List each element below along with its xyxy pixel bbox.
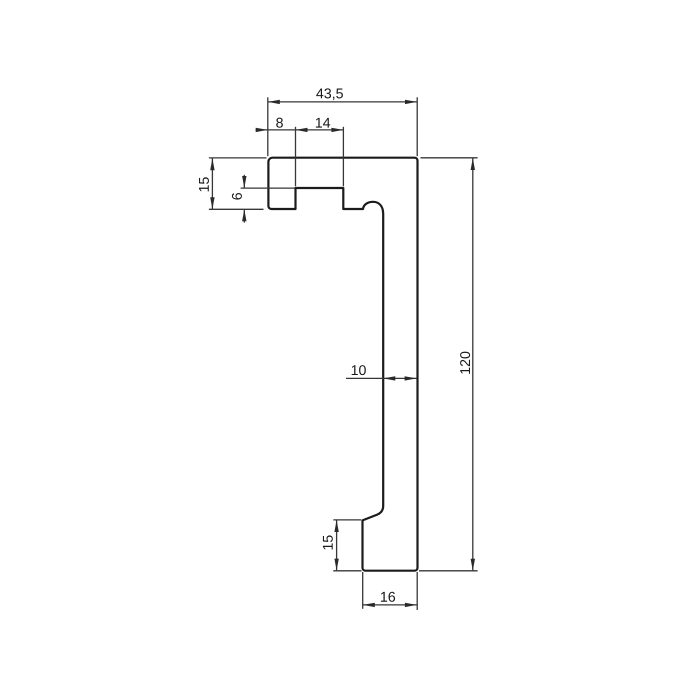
arrow 15 up <box>210 158 214 170</box>
arrow 15b up <box>334 520 338 532</box>
dimension line 15 top-left <box>211 158 213 209</box>
arrow 120 down <box>471 559 475 571</box>
label 15 <box>199 177 209 191</box>
extension line at x=343.4 for 14 <box>342 127 344 187</box>
arrow 43,5 right <box>405 100 417 104</box>
extension line at x=295.5 for 8/14 <box>295 127 297 187</box>
extension line 16 left (x=362.7) <box>362 572 364 609</box>
extension line top for bottom 15 (y=519.9) <box>333 519 361 521</box>
dimension line 10 with tail <box>346 377 417 379</box>
label 10 <box>352 365 366 375</box>
extension line top for 120 (y=157.8) <box>421 157 478 159</box>
label 120 <box>460 352 470 374</box>
extension line bottom-left of profile for 15 (y=570.8) <box>333 570 361 572</box>
extension line for 6 top (y=188.1) <box>241 187 295 189</box>
extension line 16 right (x=417.2) <box>416 572 418 610</box>
arrow 10 left <box>383 376 395 380</box>
label 14 <box>316 118 330 128</box>
arrow 16 right <box>405 603 417 607</box>
label 43,5 <box>316 88 343 100</box>
dimension 6: top arrow with tail <box>243 175 245 188</box>
dimension 6: bottom arrow with tail <box>243 209 245 222</box>
profile outline <box>268 158 417 571</box>
dimension line 15 bottom <box>336 520 338 570</box>
arrow 43,5 left <box>268 100 280 104</box>
arrow 120 up <box>471 158 475 170</box>
arrow 16 left <box>363 603 375 607</box>
dimension line 16 <box>363 604 417 606</box>
label 8 <box>276 118 283 128</box>
arrow 14 right (tip 343.4 pointing right) <box>331 128 343 132</box>
extension line bottom for 120 (y=570.8) <box>419 570 478 572</box>
arrow 15b down <box>334 559 338 571</box>
label 16 <box>381 592 395 602</box>
extension line left of 43,5 and 8 (x=267.8) <box>267 97 269 156</box>
dimension line 8 and 14 (y=129.9) <box>256 129 344 131</box>
arrow 10 right <box>405 376 417 380</box>
label 15 <box>323 535 333 549</box>
dimension line 120 <box>472 158 474 570</box>
extension line right of 43,5 (x=417.2) <box>416 97 418 156</box>
arrow 15 down <box>210 197 214 209</box>
extension line bottom for 15 and 6 (y=209.2) <box>209 208 264 210</box>
arrow at 295.5 pointing left <box>296 128 308 132</box>
dimension line 43,5 <box>268 101 417 103</box>
label 6 <box>232 193 242 200</box>
extension line top for 15 (y=157.9) <box>209 157 267 159</box>
arrow 8 left (outside, tip at 267.8 pointing right) <box>256 128 268 132</box>
